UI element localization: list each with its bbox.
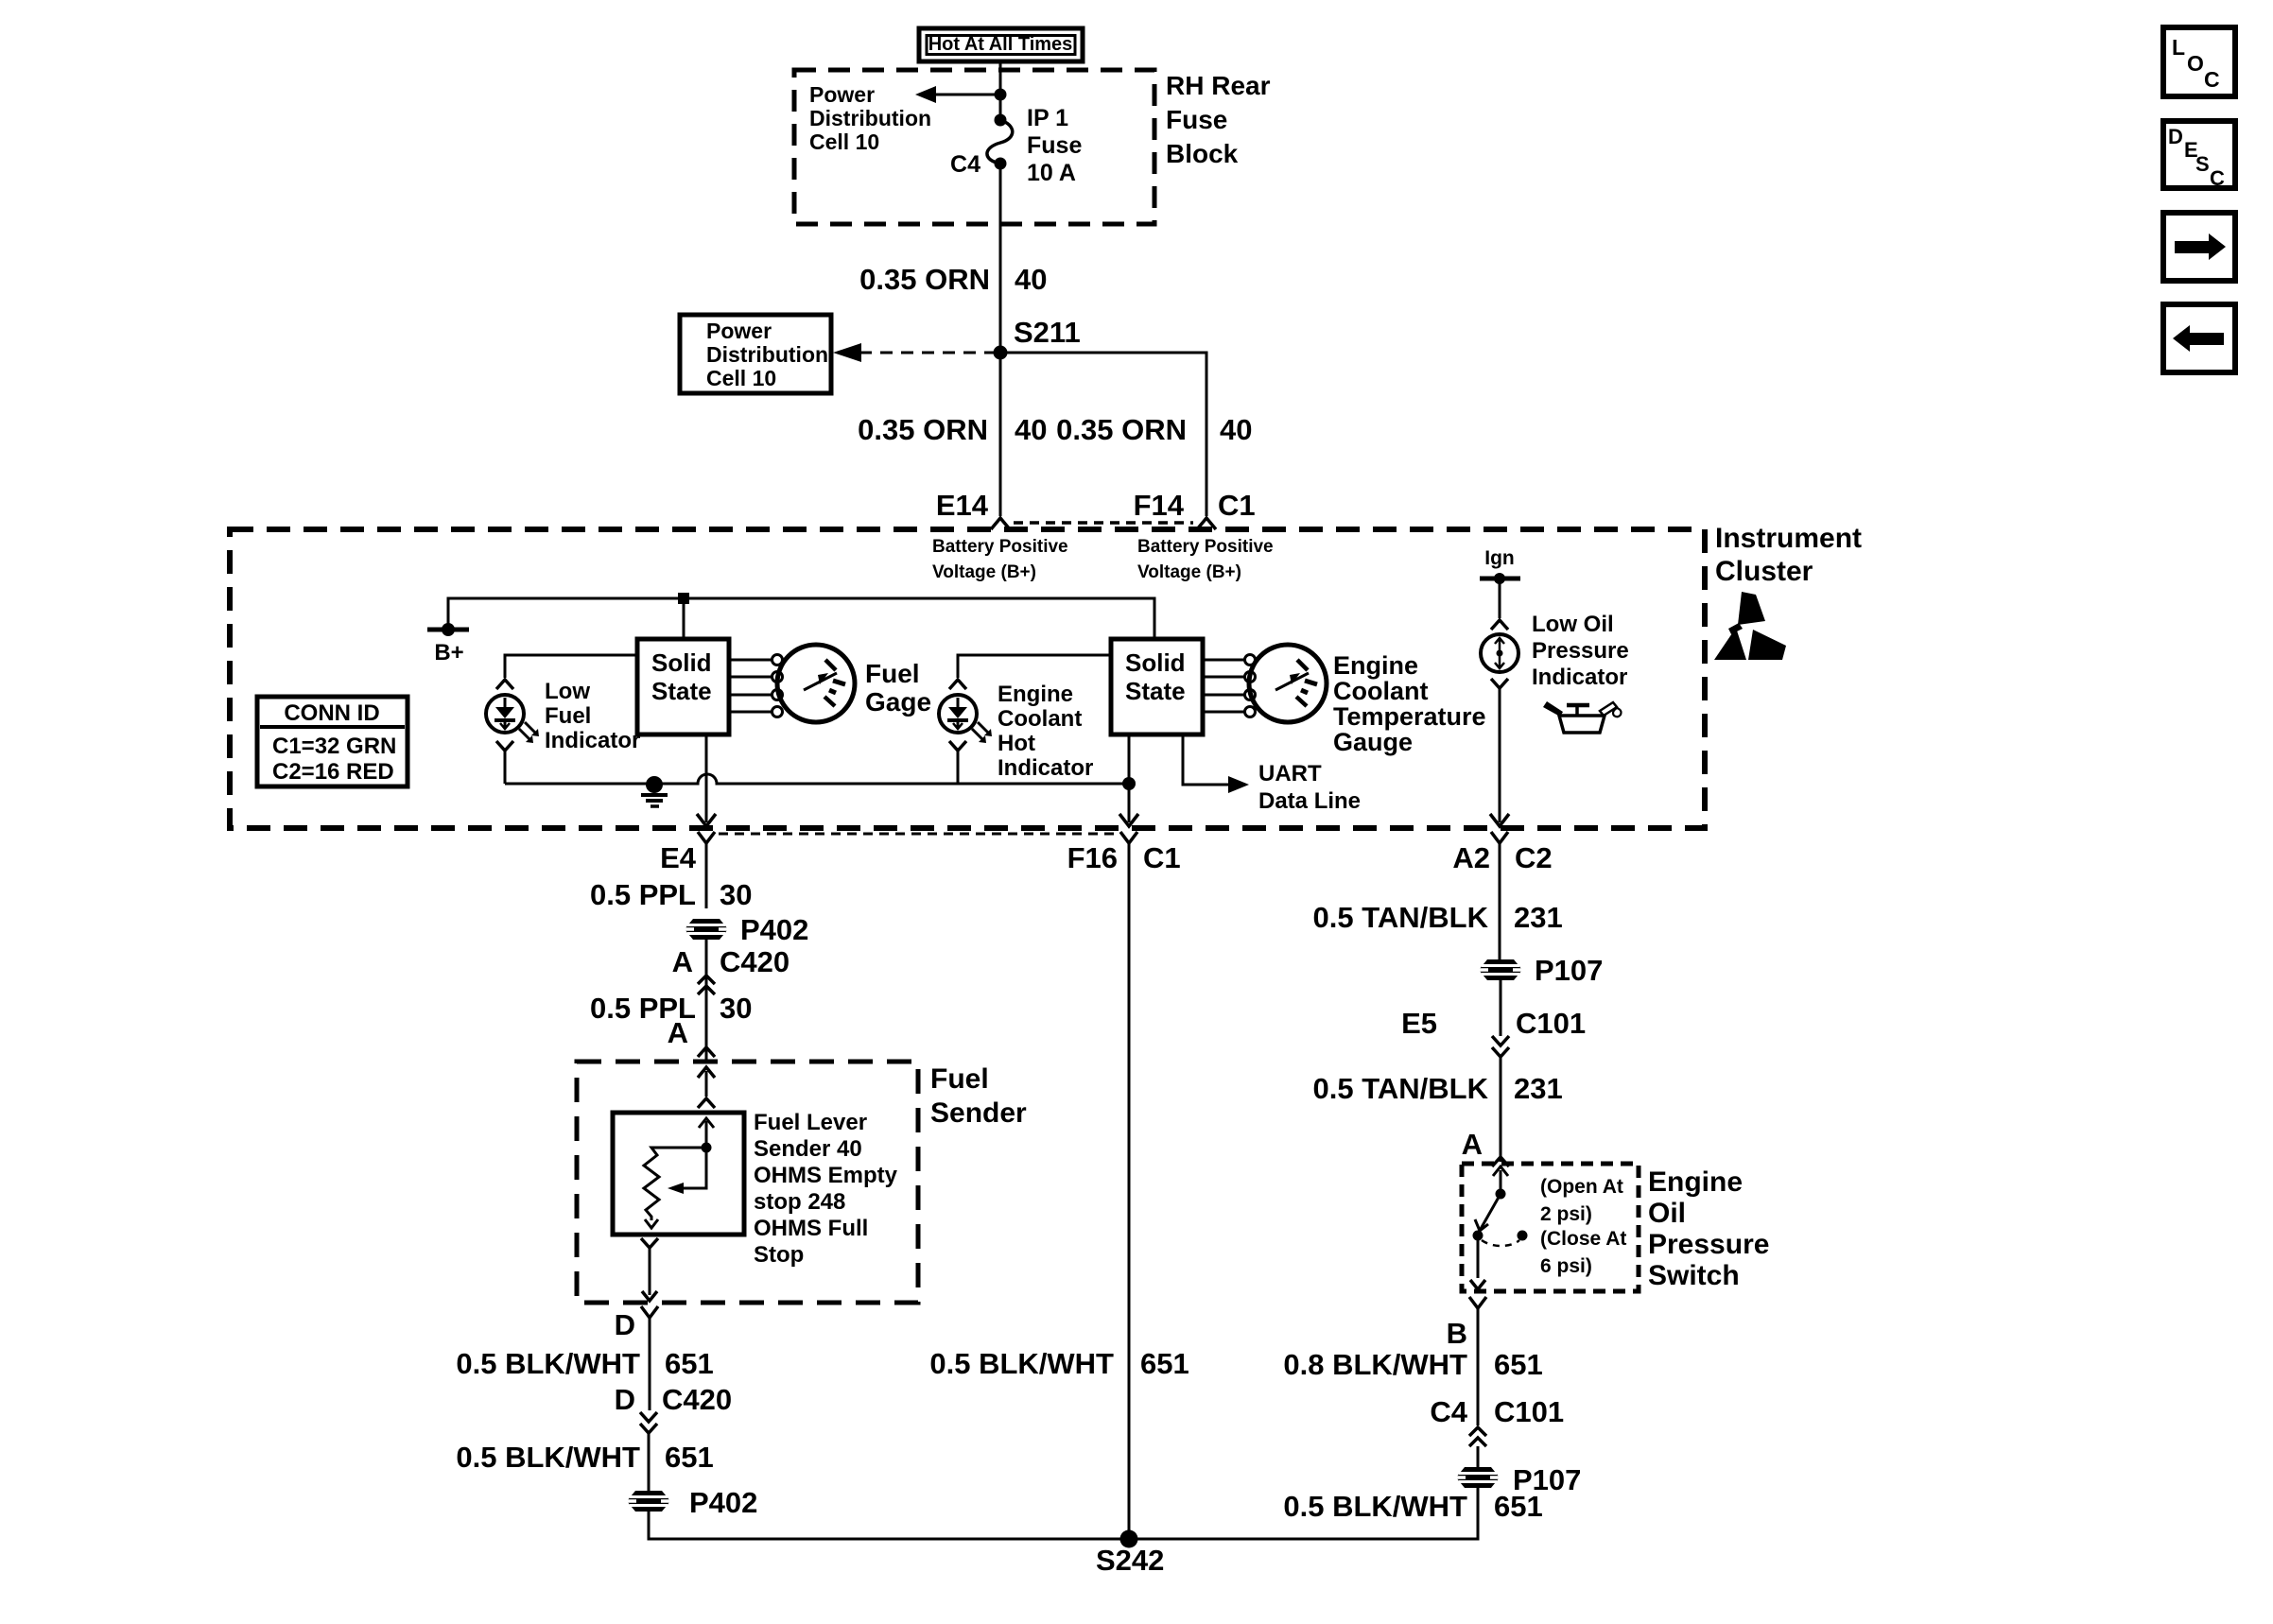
Instrument Cluster dashed box [230, 529, 1705, 828]
svg-text:C1=32 GRN: C1=32 GRN [272, 734, 396, 759]
svg-text:B+: B+ [434, 640, 463, 665]
svg-text:E5: E5 [1401, 1007, 1437, 1040]
connector F16 / C1 [1120, 832, 1137, 843]
icon: forward arrow box [2163, 213, 2235, 281]
splice P402 (top) [685, 919, 728, 940]
gauge: Engine Coolant Temperature Gauge [1249, 645, 1327, 722]
svg-text:Gage: Gage [865, 687, 931, 717]
svg-text:0.5 BLK/WHT: 0.5 BLK/WHT [456, 1441, 640, 1474]
icon: oil can [1559, 716, 1605, 733]
svg-text:651: 651 [1140, 1347, 1189, 1380]
wire: solid state to low fuel indicator [505, 655, 637, 678]
svg-text:C4: C4 [1430, 1395, 1467, 1428]
connector F14 [1197, 518, 1216, 529]
svg-text:E14: E14 [936, 489, 989, 522]
svg-text:RH Rear: RH Rear [1166, 71, 1271, 100]
connector chevron at switch [1492, 1157, 1509, 1166]
svg-text:S211: S211 [1014, 316, 1081, 349]
solid state module U1 [637, 639, 729, 734]
svg-text:Voltage (B+): Voltage (B+) [932, 562, 1036, 582]
arrow to Power Distribution Cell 10 [934, 94, 998, 96]
lamp: Engine Coolant Hot Indicator [939, 695, 977, 733]
wire: solid state 2 to coolant hot indicator [958, 655, 1111, 678]
svg-text:0.5 TAN/BLK: 0.5 TAN/BLK [1313, 1072, 1489, 1105]
svg-text:C101: C101 [1494, 1395, 1564, 1428]
connector C420 (double chevron down) [640, 1412, 657, 1422]
svg-text:651: 651 [1494, 1348, 1543, 1381]
svg-text:stop 248: stop 248 [754, 1189, 845, 1215]
splice S242 [1120, 1530, 1138, 1548]
svg-text:Voltage (B+): Voltage (B+) [1137, 562, 1241, 582]
connector C1 pin tie line (bottom) [719, 833, 1117, 836]
svg-text:Low: Low [545, 679, 590, 704]
svg-text:40: 40 [1220, 413, 1252, 446]
svg-text:A: A [672, 945, 693, 978]
svg-text:Hot At All Times: Hot At All Times [928, 34, 1073, 55]
svg-text:F16: F16 [1067, 841, 1118, 874]
ground G1 [646, 776, 663, 793]
svg-text:Fuse: Fuse [1166, 105, 1227, 134]
svg-text:Sender 40: Sender 40 [754, 1136, 862, 1162]
svg-text:Indicator: Indicator [545, 728, 640, 753]
svg-text:Fuel: Fuel [930, 1063, 989, 1095]
wire: switch to B [1477, 1235, 1480, 1278]
wire: P107 to C101 [1500, 980, 1502, 1036]
node: B+ terminal [427, 628, 469, 632]
svg-text:Coolant: Coolant [998, 706, 1082, 732]
Engine Oil Pressure Switch dashed box [1462, 1164, 1639, 1291]
connector C101 (double chevron up) [1469, 1427, 1486, 1436]
svg-text:Power: Power [809, 82, 875, 107]
lamp: Low Oil Pressure Indicator [1481, 634, 1518, 672]
svg-text:Low Oil: Low Oil [1532, 612, 1614, 637]
svg-text:Data Line: Data Line [1258, 788, 1361, 814]
svg-text:A2: A2 [1452, 841, 1490, 874]
svg-text:O: O [2187, 51, 2204, 76]
svg-text:651: 651 [665, 1441, 714, 1474]
pins: solid state to fuel gage [729, 659, 772, 662]
svg-text:Battery Positive: Battery Positive [1137, 537, 1274, 557]
wire: indicator ground bus [505, 774, 1129, 784]
svg-text:D: D [615, 1308, 635, 1341]
svg-text:40: 40 [1015, 263, 1047, 296]
svg-text:P402: P402 [740, 913, 808, 946]
wire: P402 to fuel sender [705, 940, 708, 1060]
svg-text:Engine: Engine [1333, 651, 1418, 680]
svg-text:C1: C1 [1218, 489, 1256, 522]
svg-text:A: A [1462, 1128, 1483, 1161]
svg-text:Pressure: Pressure [1532, 638, 1629, 664]
svg-text:CONN ID: CONN ID [284, 700, 379, 726]
svg-text:F14: F14 [1134, 489, 1185, 522]
svg-text:651: 651 [665, 1347, 714, 1380]
svg-text:Fuel: Fuel [545, 703, 591, 729]
wire: S211 down to E14 [999, 353, 1002, 516]
svg-text:State: State [651, 677, 712, 705]
svg-text:0.5 PPL: 0.5 PPL [590, 878, 696, 911]
splice P402 (bottom) [627, 1491, 670, 1512]
connector C101 (double chevron down) [1492, 1036, 1509, 1045]
gauge: Fuel Gage [777, 645, 855, 722]
svg-text:C1: C1 [1143, 841, 1181, 874]
wire: LED2 to ground bus [957, 751, 960, 784]
svg-text:Switch: Switch [1648, 1260, 1740, 1291]
wire: 0.5 BLK/WHT 651 (F16 to S242) [1128, 843, 1131, 1539]
svg-text:State: State [1125, 677, 1186, 705]
junction on B+ bus [678, 593, 689, 604]
connector E14 [991, 518, 1010, 529]
svg-text:L: L [2172, 35, 2185, 60]
connector C1 pin tie line [1014, 521, 1193, 525]
wire: 0.5 TAN/BLK 231 (A2 to P107) [1499, 843, 1501, 959]
wire: solid state 2 to F16 [1128, 734, 1131, 781]
svg-text:A: A [668, 1016, 688, 1049]
wire: oil indicator to A2 [1499, 688, 1501, 822]
svg-text:C420: C420 [720, 945, 789, 978]
svg-text:0.8 BLK/WHT: 0.8 BLK/WHT [1283, 1348, 1467, 1381]
wire: 0.35 ORN 40 (fuse to S211) [999, 164, 1002, 353]
wire: C101 to P107 [1477, 1446, 1480, 1467]
svg-text:Battery Positive: Battery Positive [932, 537, 1068, 557]
connector B at switch [1469, 1297, 1486, 1308]
svg-text:Fuel: Fuel [865, 659, 920, 688]
svg-text:231: 231 [1514, 1072, 1563, 1105]
svg-text:30: 30 [720, 878, 752, 911]
svg-text:Solid: Solid [651, 648, 712, 677]
svg-text:C101: C101 [1516, 1007, 1586, 1040]
svg-text:0.35 ORN: 0.35 ORN [859, 263, 990, 296]
ESD sensitivity symbol [1738, 592, 1765, 625]
wire: 0.5 PPL 30 (E4 to P402) [705, 843, 708, 908]
svg-text:Coolant: Coolant [1333, 677, 1429, 705]
svg-text:Distribution: Distribution [706, 342, 828, 367]
svg-text:Distribution: Distribution [809, 106, 931, 130]
svg-text:Solid: Solid [1125, 648, 1186, 677]
svg-text:0.5 TAN/BLK: 0.5 TAN/BLK [1313, 901, 1489, 934]
node: sender junction [702, 1143, 712, 1153]
svg-text:Instrument: Instrument [1715, 523, 1862, 554]
connector A2 / C2 [1491, 832, 1508, 843]
wire: 0.5 BLK/WHT 651 (fuel sender to C420) [649, 1318, 651, 1410]
svg-text:Oil: Oil [1648, 1198, 1686, 1229]
connector inside fuel sender [698, 1067, 715, 1078]
svg-text:P107: P107 [1535, 954, 1603, 987]
wire: fuse block feed from Hot At All Times [999, 61, 1002, 120]
junction at fuse feed [995, 89, 1007, 101]
wire: Ign to indicator [1499, 579, 1501, 618]
wiper arm arrow [682, 1148, 706, 1188]
splice P107 (top) [1479, 959, 1522, 980]
connector E4 [698, 832, 715, 843]
svg-text:2 psi): 2 psi) [1540, 1203, 1592, 1225]
svg-text:C2=16 RED: C2=16 RED [272, 759, 394, 785]
svg-text:C420: C420 [662, 1383, 732, 1416]
svg-text:P402: P402 [689, 1486, 757, 1519]
svg-text:OHMS Empty: OHMS Empty [754, 1163, 898, 1188]
svg-text:B: B [1447, 1317, 1467, 1350]
connector chevron at fuel sender [698, 1047, 715, 1057]
Power Distribution Cell 10 reference box [680, 315, 831, 393]
wire: 0.5 BLK/WHT 651 (P107 to S242 bus) [1129, 1488, 1478, 1539]
svg-text:0.5 BLK/WHT: 0.5 BLK/WHT [1283, 1490, 1467, 1523]
switch: oil pressure contacts [1493, 1166, 1508, 1176]
connector Y below LED1 [496, 741, 513, 751]
RH Rear Fuse Block dashed box [794, 70, 1154, 224]
svg-text:Fuel Lever: Fuel Lever [754, 1110, 867, 1135]
svg-text:D: D [615, 1383, 635, 1416]
dashed arrow: S211 to Power Distribution [859, 352, 994, 354]
wire: P402 to S242 bus [649, 1512, 1129, 1539]
svg-text:S242: S242 [1096, 1544, 1164, 1577]
svg-text:Pressure: Pressure [1648, 1229, 1769, 1260]
svg-text:Hot: Hot [998, 731, 1035, 756]
svg-text:Power: Power [706, 319, 772, 343]
svg-text:0.5 BLK/WHT: 0.5 BLK/WHT [929, 1347, 1114, 1380]
svg-text:651: 651 [1494, 1490, 1543, 1523]
wire: S211 branch right to F14 [1000, 353, 1206, 516]
svg-text:Stop: Stop [754, 1242, 804, 1268]
splice P107 (bottom) [1456, 1467, 1500, 1488]
wire: LED1 to ground bus [504, 751, 507, 784]
svg-text:Cluster: Cluster [1715, 556, 1813, 587]
CONN ID table [257, 697, 408, 786]
svg-text:C4: C4 [950, 151, 980, 178]
connector Y below sender element [641, 1238, 658, 1248]
svg-text:Fuse: Fuse [1027, 132, 1082, 159]
svg-text:Indicator: Indicator [998, 755, 1093, 781]
wire: 0.5 BLK/WHT 651 (C420 to P402) [648, 1433, 651, 1491]
fuse F1 IP 1 Fuse 10 A [995, 114, 1007, 127]
fuel level sender inner box [613, 1113, 744, 1235]
svg-text:E4: E4 [660, 841, 697, 874]
svg-text:0.35 ORN: 0.35 ORN [1056, 413, 1187, 446]
svg-text:30: 30 [720, 992, 752, 1025]
svg-text:Indicator: Indicator [1532, 665, 1627, 690]
sender wiper input arrow [699, 1118, 714, 1128]
pins: solid state 2 to coolant gauge [1203, 659, 1244, 662]
svg-text:Ign: Ign [1484, 547, 1515, 569]
svg-text:Engine: Engine [1648, 1166, 1743, 1198]
svg-text:Gauge: Gauge [1333, 728, 1413, 756]
lamp: Low Fuel Indicator [486, 695, 524, 733]
wire: solid state 2 to UART arrow [1183, 734, 1228, 785]
wire: solid state 1 to E4 (with hop) [705, 734, 708, 822]
svg-text:(Close At: (Close At [1540, 1228, 1626, 1250]
wire: B+ bus [448, 598, 1154, 639]
wire: 0.8 BLK/WHT 651 (switch to C101) [1477, 1308, 1480, 1425]
connector D at fuel sender [641, 1306, 658, 1318]
icon: LOC box [2163, 27, 2235, 96]
svg-text:C: C [2204, 67, 2220, 92]
icon: DESC box [2163, 121, 2235, 188]
connector Y below oil lamp [1491, 679, 1508, 688]
svg-text:10 A: 10 A [1027, 160, 1076, 186]
svg-text:Cell 10: Cell 10 [809, 130, 879, 154]
svg-text:6 psi): 6 psi) [1540, 1255, 1592, 1277]
icon: back arrow box [2163, 304, 2235, 372]
svg-text:Engine: Engine [998, 682, 1073, 707]
svg-text:231: 231 [1514, 901, 1563, 934]
svg-text:OHMS Full: OHMS Full [754, 1216, 868, 1241]
connector chevron above LED2 [949, 680, 966, 689]
svg-text:C: C [2210, 166, 2225, 190]
svg-text:40: 40 [1015, 413, 1047, 446]
solid state module U2 [1111, 639, 1203, 734]
svg-text:(Open At: (Open At [1540, 1176, 1623, 1198]
svg-text:IP 1: IP 1 [1027, 105, 1068, 131]
svg-text:Temperature: Temperature [1333, 702, 1486, 731]
wire: 0.5 TAN/BLK 231 (C101 to switch) [1500, 1057, 1502, 1162]
svg-text:Block: Block [1166, 139, 1239, 168]
label box: Hot At All Times [919, 28, 1083, 61]
svg-text:D: D [2168, 125, 2183, 148]
svg-text:Cell 10: Cell 10 [706, 366, 776, 390]
connector C420 (double chevron up) [698, 976, 715, 984]
svg-text:0.5 BLK/WHT: 0.5 BLK/WHT [456, 1347, 640, 1380]
svg-text:0.35 ORN: 0.35 ORN [858, 413, 988, 446]
connector Y below LED2 [949, 741, 966, 751]
resistor: fuel level sender element [644, 1148, 706, 1220]
svg-text:Sender: Sender [930, 1097, 1027, 1129]
svg-text:UART: UART [1258, 761, 1322, 786]
wire: sender to D [649, 1248, 651, 1295]
svg-text:S: S [2195, 152, 2210, 176]
svg-text:C2: C2 [1515, 841, 1553, 874]
Fuel Sender dashed box [577, 1062, 918, 1303]
connector chevron above LED1 [496, 680, 513, 689]
